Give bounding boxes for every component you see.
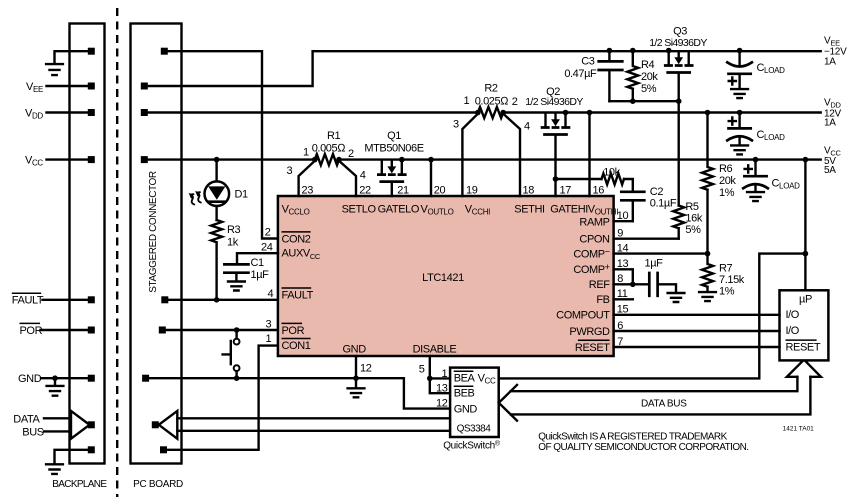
svg-text:8: 8 xyxy=(617,273,623,285)
chip top pin name VOUTLO xyxy=(421,203,454,216)
wire VDD label to pin xyxy=(47,111,88,113)
svg-text:2: 2 xyxy=(265,227,271,239)
pin 8 wire (REF to 1uF) xyxy=(614,283,649,285)
label R1 xyxy=(327,130,341,142)
pin 10 wire (RAMP) xyxy=(614,220,633,222)
svg-text:Q3: Q3 xyxy=(673,26,687,38)
POR backplane pin xyxy=(88,327,95,334)
chip left pin name CON2 xyxy=(282,232,311,245)
label Q2 xyxy=(546,86,560,98)
pin 22 stub (SETLO kelvin tap) xyxy=(339,161,356,196)
pin label 1 (R2) xyxy=(464,95,470,107)
svg-text:20: 20 xyxy=(434,184,446,196)
row1 pc-board pin xyxy=(161,48,168,55)
svg-text:BUS: BUS xyxy=(22,427,43,439)
pin 11 number xyxy=(617,288,628,300)
pin label 1 (R1) xyxy=(303,147,309,159)
value 16k xyxy=(685,213,702,225)
VDD backplane pin xyxy=(88,109,95,116)
svg-text:RESET: RESET xyxy=(575,342,610,354)
value 0.005 ohm xyxy=(312,142,347,154)
wire data line lower (backplane) xyxy=(44,430,71,432)
pin 21 number xyxy=(397,184,409,196)
wire CPON/R5 to Q3 gate node xyxy=(678,101,680,205)
node label 4 (R1 tap) xyxy=(360,170,366,182)
svg-text:OF QUALITY SEMICONDUCTOR CORPO: OF QUALITY SEMICONDUCTOR CORPORATION. xyxy=(538,442,748,453)
svg-text:0.47µF: 0.47µF xyxy=(564,68,597,80)
pin 23 stub (VCCLO kelvin tap) xyxy=(299,161,315,196)
svg-text:1: 1 xyxy=(266,333,272,345)
QS3384 pin 12 number xyxy=(436,398,448,410)
label 10k xyxy=(603,166,620,178)
svg-text:3: 3 xyxy=(266,318,272,330)
value MTB50N06E xyxy=(364,142,423,154)
svg-text:CON1: CON1 xyxy=(282,340,311,352)
junction Q1 drain xyxy=(399,157,405,163)
value 1/2 Si4936DY (Q3) xyxy=(649,37,707,49)
wire QS3384 VCC to 5V rail xyxy=(499,254,806,379)
LED D1 xyxy=(190,160,229,220)
net VEE rail xyxy=(148,51,821,86)
svg-text:1k: 1k xyxy=(227,236,239,248)
svg-text:PWRGD: PWRGD xyxy=(569,326,610,338)
junction Q3 source xyxy=(666,48,672,54)
svg-text:1: 1 xyxy=(303,147,309,159)
chip right pin name CPON xyxy=(579,234,610,246)
wire DISABLE to BEA xyxy=(430,377,450,379)
GND pc-board pin xyxy=(142,375,149,382)
value 0.025 ohm xyxy=(475,95,510,107)
capacitor CLOAD (VDD rail) xyxy=(727,110,752,145)
value 1/2 Si4936DY (Q2) xyxy=(525,96,583,108)
DATA BUS backplane pin xyxy=(88,421,95,428)
pin 19 number xyxy=(466,184,478,196)
chip right pin name COMPOUT xyxy=(556,310,610,322)
chip top pin name GATEHI xyxy=(550,203,588,215)
svg-text:R1: R1 xyxy=(327,130,341,142)
value 20k (R4) xyxy=(641,71,658,83)
chip right pin name REF xyxy=(589,279,610,291)
resistor R3 xyxy=(211,220,222,300)
pushbutton switch xyxy=(223,330,240,378)
junction R6 top xyxy=(705,110,711,116)
label R6 xyxy=(719,163,733,175)
svg-text:COMP+: COMP+ xyxy=(573,262,609,276)
chip right pin name FB xyxy=(596,294,609,306)
svg-text:GATEHI: GATEHI xyxy=(550,203,588,215)
ground (C1) xyxy=(228,282,245,291)
resistor R5 xyxy=(673,206,684,239)
chip right pin name COMP+ xyxy=(573,262,609,276)
capacitor CLOAD (VEE rail) xyxy=(727,48,752,89)
label R3 xyxy=(227,224,241,236)
junction C3 top xyxy=(607,48,613,54)
wire row9 pin to ground xyxy=(55,450,88,463)
data bus upper line xyxy=(511,377,798,391)
pin 19 stub (VCCHI kelvin tap) xyxy=(462,114,478,196)
pin 13 number xyxy=(617,258,629,270)
svg-text:R4: R4 xyxy=(641,59,655,71)
label FAULT (left) xyxy=(12,293,44,306)
ground (backplane top) xyxy=(46,64,63,75)
node label 4 (R2 tap) xyxy=(524,121,530,133)
pin 5 stub (DISABLE) xyxy=(429,356,431,378)
svg-text:GATELO: GATELO xyxy=(378,203,420,215)
label PC BOARD xyxy=(133,479,183,490)
tolerance 1% (R7) xyxy=(719,286,735,298)
svg-text:17: 17 xyxy=(560,184,572,196)
svg-text:13: 13 xyxy=(617,258,629,270)
wire gate node (C3/R4 to Q3 gate) xyxy=(609,100,678,102)
svg-text:GND: GND xyxy=(343,344,367,356)
ground (backplane bottom) xyxy=(46,464,63,474)
FAULT pc-board pin xyxy=(161,296,168,303)
svg-text:POR: POR xyxy=(20,325,43,337)
junction R2 left xyxy=(475,110,481,116)
label DATA xyxy=(13,413,40,425)
junction R4 top xyxy=(630,48,636,54)
label R5 xyxy=(685,201,699,213)
FAULT backplane pin xyxy=(88,296,95,303)
pin 22 number xyxy=(359,184,371,196)
svg-text:C3: C3 xyxy=(581,56,595,68)
svg-text:10: 10 xyxy=(617,210,629,222)
svg-text:16k: 16k xyxy=(685,213,702,225)
chip right pin name COMP- xyxy=(573,247,609,261)
svg-text:0.005Ω: 0.005Ω xyxy=(312,142,347,154)
svg-text:RAMP: RAMP xyxy=(579,216,609,228)
svg-text:9: 9 xyxy=(617,228,623,240)
label POR (left) xyxy=(20,323,43,336)
VEE backplane pin xyxy=(88,83,95,90)
wire VCC label to pin xyxy=(47,158,88,160)
net label VEE -12V 1A xyxy=(824,35,847,67)
node label 3 (R2 tap) xyxy=(453,119,459,131)
svg-text:16: 16 xyxy=(593,184,605,196)
svg-text:0.1µF: 0.1µF xyxy=(650,198,677,210)
svg-text:GND: GND xyxy=(18,373,42,385)
wire VEE label to pin xyxy=(47,85,88,87)
svg-text:7: 7 xyxy=(617,336,623,348)
label C1 xyxy=(251,257,265,269)
svg-text:PC BOARD: PC BOARD xyxy=(133,479,183,490)
junction GND stub xyxy=(52,375,58,381)
svg-text:STAGGERED CONNECTOR: STAGGERED CONNECTOR xyxy=(148,171,159,293)
tolerance 5% (R5) xyxy=(685,224,701,236)
value 7.15k xyxy=(719,274,745,286)
capacitor C2 xyxy=(621,192,644,221)
row9 pc-board pin xyxy=(160,446,167,453)
QS3384 pin 1 number xyxy=(442,368,448,380)
wire CON1 pin 1 to row9 pin xyxy=(167,346,278,450)
data bus arrow into uP xyxy=(787,360,821,377)
label R2 xyxy=(484,83,498,95)
pin 11 wire (FB stub) xyxy=(614,298,633,300)
svg-text:QuickSwitch IS A REGISTERED TR: QuickSwitch IS A REGISTERED TRADEMARK xyxy=(538,431,727,442)
svg-text:23: 23 xyxy=(302,184,314,196)
wire POR to chip pin 3 xyxy=(166,329,278,331)
pin 16 number xyxy=(593,184,605,196)
label DATA BUS xyxy=(641,399,687,410)
svg-text:1421 TA01: 1421 TA01 xyxy=(783,426,815,433)
label Q3 xyxy=(673,26,687,38)
VEE pc-board pin xyxy=(141,83,148,90)
svg-text:1/2 Si4936DY: 1/2 Si4936DY xyxy=(649,37,707,49)
svg-text:22: 22 xyxy=(359,184,371,196)
pin 6 wire (PWRGD to uP) xyxy=(614,330,780,332)
svg-text:3: 3 xyxy=(287,165,293,177)
junction R1 right xyxy=(336,157,342,163)
svg-text:COMPOUT: COMPOUT xyxy=(556,310,610,322)
value 1uF (REF cap) xyxy=(645,258,664,270)
svg-text:C1: C1 xyxy=(251,257,265,269)
svg-text:10k: 10k xyxy=(603,166,620,178)
svg-text:FAULT: FAULT xyxy=(282,289,314,301)
svg-text:REF: REF xyxy=(589,279,610,291)
ground (REF cap) xyxy=(668,293,685,302)
pin 20 number xyxy=(434,184,446,196)
pin 1 number (CON1) xyxy=(266,333,272,345)
junction R1 left xyxy=(312,157,318,163)
chip bottom pin name DISABLE xyxy=(413,344,457,356)
capacitor CLOAD (VCC rail) xyxy=(743,157,768,192)
svg-text:24: 24 xyxy=(261,242,273,254)
resistor R6 xyxy=(702,113,713,254)
label C2 xyxy=(650,186,664,198)
chip left pin name CON1 xyxy=(282,339,311,352)
svg-text:1%: 1% xyxy=(719,187,735,199)
row1 backplane pin xyxy=(88,48,95,55)
svg-text:CON2: CON2 xyxy=(282,233,311,245)
backplane connector body xyxy=(70,24,105,464)
pin label 2 (R1) xyxy=(348,148,354,160)
wire DISABLE to BEB xyxy=(430,378,450,393)
junction R4 bottom xyxy=(630,98,636,104)
data bus QS3384 to uP (arrowhead chevron) xyxy=(499,385,517,421)
svg-text:SETHI: SETHI xyxy=(514,203,545,215)
junction VCC to D1 xyxy=(214,157,220,163)
svg-text:1%: 1% xyxy=(719,286,735,298)
svg-text:6: 6 xyxy=(617,320,623,332)
data bus arrow (pc board, points left) xyxy=(159,411,178,439)
net GND (pc board) xyxy=(149,378,450,408)
pin 23 number xyxy=(302,184,314,196)
chip top pin name VOUTHI xyxy=(588,203,618,216)
label QuickSwitch trademark line1 xyxy=(538,431,727,442)
resistor R2 xyxy=(478,107,503,118)
svg-text:12: 12 xyxy=(360,362,372,374)
net VDD rail (right of R2) xyxy=(503,111,821,113)
junction pushbutton to GND wire xyxy=(234,375,240,381)
chip top pin name GATELO xyxy=(378,203,420,215)
pin 5 number xyxy=(419,364,425,376)
svg-text:12: 12 xyxy=(436,398,448,410)
label Q1 xyxy=(387,130,401,142)
svg-text:C2: C2 xyxy=(650,186,664,198)
label QuickSwitch (registered) xyxy=(443,440,501,452)
svg-text:µP: µP xyxy=(799,294,812,306)
transistor Q3 xyxy=(664,52,694,101)
pin 6 number xyxy=(617,320,623,332)
junction DISABLE node xyxy=(427,376,433,382)
svg-text:7.15k: 7.15k xyxy=(719,274,745,286)
pin 18 number xyxy=(523,184,535,196)
ground (CLOAD VCC) xyxy=(747,192,764,201)
svg-text:R6: R6 xyxy=(719,163,733,175)
svg-text:R5: R5 xyxy=(685,201,699,213)
QS3384 pin 13 number xyxy=(436,382,448,394)
svg-text:1A: 1A xyxy=(824,118,836,129)
data bus lower line xyxy=(511,377,811,415)
pin 20 stub (VOUTLO) xyxy=(430,160,432,196)
pin 9 wire (CPON to R5) xyxy=(614,237,679,239)
svg-text:R3: R3 xyxy=(227,224,241,236)
pin 14 wire (COMP- to divider) xyxy=(614,252,708,254)
pin 16 stub (VOUTHI) xyxy=(588,113,590,197)
label 1421 TA01 xyxy=(783,426,815,433)
tolerance 1% (R6) xyxy=(719,187,735,199)
data bus arrow (backplane, points right) xyxy=(71,411,90,439)
svg-text:SETLO: SETLO xyxy=(342,203,377,215)
pin 2 number (CON2) xyxy=(265,227,271,239)
svg-text:5: 5 xyxy=(419,364,425,376)
pin 8 number xyxy=(617,273,623,285)
capacitor 1uF (REF) xyxy=(649,273,676,296)
label D1 xyxy=(235,189,249,201)
svg-text:RESET: RESET xyxy=(786,342,821,354)
junction pin 17 gate node xyxy=(553,176,559,182)
svg-text:GND: GND xyxy=(454,403,478,415)
svg-text:2: 2 xyxy=(512,96,518,108)
net VDD rail (left of R2) xyxy=(148,111,478,113)
label STAGGERED CONNECTOR xyxy=(148,171,159,293)
node label 3 (R1 tap) xyxy=(287,165,293,177)
resistor R4 xyxy=(627,51,638,102)
chip right pin name RAMP xyxy=(579,216,609,228)
svg-text:DISABLE: DISABLE xyxy=(413,344,457,356)
pin 14 number xyxy=(617,243,629,255)
pin label 2 (R2) xyxy=(512,96,518,108)
svg-text:3: 3 xyxy=(453,119,459,131)
svg-text:R7: R7 xyxy=(719,263,733,275)
svg-text:13: 13 xyxy=(436,382,448,394)
pin 13 wire (COMP+) xyxy=(614,269,633,284)
svg-text:15: 15 xyxy=(617,304,629,316)
capacitor C1 xyxy=(224,264,248,281)
svg-text:BEA: BEA xyxy=(454,372,476,384)
svg-text:4: 4 xyxy=(524,121,530,133)
label GND (left) xyxy=(18,373,42,385)
pin 4 number (FAULT) xyxy=(268,288,274,300)
svg-text:DATA BUS: DATA BUS xyxy=(641,399,687,410)
svg-text:1/2 Si4936DY: 1/2 Si4936DY xyxy=(525,96,583,108)
VDD pc-board pin xyxy=(141,109,148,116)
svg-text:QuickSwitch®: QuickSwitch® xyxy=(443,440,501,452)
chip left pin name AUXVCC xyxy=(282,248,321,261)
net VCC rail (right of R1) xyxy=(339,158,821,160)
value 20k (R6) xyxy=(719,175,736,187)
svg-text:5A: 5A xyxy=(824,165,836,176)
junction divider node xyxy=(705,251,711,257)
value 0.1uF xyxy=(650,198,677,210)
svg-text:1: 1 xyxy=(464,95,470,107)
chip top pin name VCCHI xyxy=(465,203,490,216)
svg-text:21: 21 xyxy=(397,184,409,196)
wire FAULT to chip pin 4 xyxy=(168,299,278,301)
svg-text:0.025Ω: 0.025Ω xyxy=(475,95,510,107)
resistor R7 xyxy=(702,254,713,292)
chip left pin name POR xyxy=(282,323,305,336)
label R7 xyxy=(719,263,733,275)
svg-text:I/O: I/O xyxy=(786,309,800,321)
wire data line upper (backplane) xyxy=(44,417,71,419)
junction chip GND xyxy=(353,375,359,381)
wire row1 to CON2 pin 2 xyxy=(168,51,278,238)
value 1k xyxy=(227,236,239,248)
pin 24 wire (AUXVCC to C1) xyxy=(237,253,278,263)
svg-text:1µF: 1µF xyxy=(645,258,664,270)
svg-text:QS3384: QS3384 xyxy=(457,424,492,435)
svg-text:BEB: BEB xyxy=(454,387,475,399)
ground (R7) xyxy=(699,292,716,301)
IC QS3384 QuickSwitch body xyxy=(450,368,499,437)
svg-text:5%: 5% xyxy=(685,224,701,236)
chip right pin name RESET xyxy=(575,340,610,354)
svg-text:R2: R2 xyxy=(484,83,498,95)
board separator dashed line xyxy=(116,8,118,497)
svg-text:DATA: DATA xyxy=(13,413,40,425)
label CLOAD (VDD) xyxy=(757,129,786,142)
value 1uF (C1) xyxy=(251,269,270,281)
label CLOAD (VEE) xyxy=(757,62,786,75)
label BUS xyxy=(22,427,43,439)
resistor 10k xyxy=(602,174,624,185)
svg-text:1A: 1A xyxy=(824,56,836,67)
svg-text:5%: 5% xyxy=(641,83,657,95)
junction Q2 drain xyxy=(563,110,569,116)
pin 17 number xyxy=(560,184,572,196)
svg-text:LTC1421: LTC1421 xyxy=(422,272,464,284)
ground (CLOAD VEE) xyxy=(731,89,748,98)
POR pc-board pin xyxy=(159,327,166,334)
label BACKPLANE xyxy=(52,479,107,490)
junction POR to pushbutton xyxy=(234,327,240,333)
svg-text:CPON: CPON xyxy=(579,234,610,246)
svg-text:D1: D1 xyxy=(235,189,249,201)
ground (chip GND) xyxy=(348,378,365,397)
tolerance 5% (R4) xyxy=(641,83,657,95)
row9 backplane pin xyxy=(88,446,95,453)
pin 7 number xyxy=(617,336,623,348)
junction Q3 gate node xyxy=(676,98,682,104)
label QuickSwitch trademark line2 xyxy=(538,442,748,453)
wire row1 pin to ground xyxy=(55,51,88,63)
svg-text:14: 14 xyxy=(617,243,629,255)
transistor Q2 xyxy=(541,114,571,196)
capacitor C3 xyxy=(599,51,623,102)
svg-text:2: 2 xyxy=(348,148,354,160)
GND backplane pin xyxy=(88,375,95,382)
svg-text:MTB50N06E: MTB50N06E xyxy=(364,142,423,154)
wire GND label to pin xyxy=(41,377,88,379)
wire FAULT label to pin xyxy=(43,299,88,301)
microprocessor uP body xyxy=(780,290,829,360)
chip top pin name VCCLO xyxy=(282,203,310,216)
junction R3 to FAULT wire xyxy=(214,297,220,303)
pin 15 number xyxy=(617,304,629,316)
pin 10 number xyxy=(617,210,629,222)
label CLOAD (VCC) xyxy=(772,178,801,191)
